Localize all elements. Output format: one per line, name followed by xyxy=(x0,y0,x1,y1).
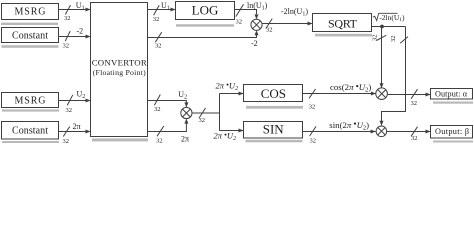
svg-text:SIN: SIN xyxy=(263,122,285,137)
multiplier M1 (ln(U1) x -2) xyxy=(251,19,262,30)
wire vertical drop 2 stepping down to multiplier M3, slash, rotated 32 xyxy=(382,27,409,126)
svg-text:32: 32 xyxy=(411,100,418,107)
block Output: beta xyxy=(431,126,474,143)
wire M1 to SQRT, bus slash, label -2ln(U1) xyxy=(262,19,312,29)
multiplier M4 (U2 x 2pi) xyxy=(181,107,192,118)
wire SQRT output with junction node, label sqrt(-2ln(U1)) xyxy=(372,26,406,28)
wire M3 to Output beta, bus slash xyxy=(387,127,431,137)
svg-text:32: 32 xyxy=(266,26,273,33)
block COS xyxy=(244,85,304,109)
multiplier M3 (sin x sqrt) xyxy=(376,126,387,137)
wire vertical drop 1 to multiplier M2, slash, rotated 32 xyxy=(376,27,386,88)
wire branch to SIN, label 2pi*U2 xyxy=(220,130,244,132)
block MSRG (bottom) xyxy=(2,93,60,112)
svg-text:LOG: LOG xyxy=(192,2,219,17)
svg-text:32: 32 xyxy=(63,43,70,50)
block Constant (top) xyxy=(2,28,59,48)
svg-text:32: 32 xyxy=(411,135,418,142)
svg-text:SQRT: SQRT xyxy=(328,16,358,30)
svg-text:Output: α: Output: α xyxy=(435,89,468,98)
svg-text:(Floating Point): (Floating Point) xyxy=(93,68,146,77)
svg-text:Constant: Constant xyxy=(12,126,48,137)
svg-text:-2: -2 xyxy=(251,39,258,48)
svg-text:32: 32 xyxy=(390,36,397,43)
multiplier M2 (cos x sqrt) xyxy=(376,88,388,100)
svg-text:32: 32 xyxy=(63,138,70,143)
wire MSRG1 to convertor, bus slash, label U1 xyxy=(59,5,91,14)
wire Constant1 to convertor, bus slash, label -2 xyxy=(59,31,91,41)
block SIN xyxy=(244,122,303,143)
wire convertor U2 out to multiplier M4 top, bus slash, label U2 xyxy=(148,95,186,107)
svg-text:CONVERTOR: CONVERTOR xyxy=(92,58,147,68)
block LOG xyxy=(176,2,235,27)
wire Constant2 to convertor, bus slash, label 2pi xyxy=(59,127,91,137)
svg-text:-2ln(U1): -2ln(U1) xyxy=(379,13,405,23)
svg-text:32: 32 xyxy=(371,35,378,42)
block MSRG (top) xyxy=(1,4,59,26)
block Constant (bottom) xyxy=(2,122,60,144)
svg-text:Constant: Constant xyxy=(12,31,48,42)
svg-text:Output: β: Output: β xyxy=(435,127,469,136)
svg-text:MSRG: MSRG xyxy=(15,6,46,17)
svg-text:2π: 2π xyxy=(73,122,81,131)
wire COS to multiplier M2, bus slash, label cos(2pi*U2) xyxy=(303,89,376,98)
svg-text:32: 32 xyxy=(154,106,161,113)
wire convertor -2 feed to multiplier M1 bottom, bus slash, label -2 xyxy=(148,32,257,42)
svg-text:-2: -2 xyxy=(77,27,84,36)
wire M2 to Output alpha, bus slash xyxy=(388,89,431,99)
svg-text:32: 32 xyxy=(236,19,243,26)
wire M4 output to branch tee, bus slash xyxy=(192,108,220,118)
svg-text:COS: COS xyxy=(261,86,286,101)
wire SIN to multiplier M3, bus slash, label sin(2pi*U2) xyxy=(303,126,376,136)
block Output: alpha xyxy=(431,89,474,104)
svg-text:32: 32 xyxy=(153,16,160,23)
svg-text:32: 32 xyxy=(309,104,316,111)
svg-text:32: 32 xyxy=(155,43,162,50)
wire convertor 2pi out to multiplier M4 bottom, bus slash, label 2pi xyxy=(148,119,186,136)
svg-text:32: 32 xyxy=(199,117,206,124)
svg-text:32: 32 xyxy=(66,107,73,114)
wire LOG to multiplier M1, bus slash, label ln(U1) xyxy=(235,4,257,16)
svg-text:32: 32 xyxy=(156,137,163,143)
block SQRT xyxy=(313,14,373,37)
wire branch to COS, label 2pi*U2 xyxy=(220,93,244,95)
svg-text:2π: 2π xyxy=(181,134,189,143)
svg-text:MSRG: MSRG xyxy=(15,96,46,107)
wire MSRG2 to convertor, bus slash, label U2 xyxy=(59,95,91,106)
svg-text:32: 32 xyxy=(310,137,317,143)
wire branch tee vertical xyxy=(219,94,221,131)
block CONVERTOR (Floating Point) xyxy=(91,3,149,142)
svg-text:ln(U1): ln(U1) xyxy=(247,1,268,12)
wire convertor to LOG, bus slash, label U1 xyxy=(148,5,176,15)
svg-text:32: 32 xyxy=(64,15,71,22)
